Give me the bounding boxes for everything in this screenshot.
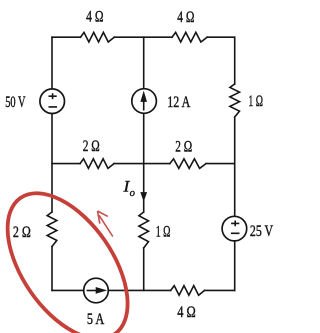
wire R7 to bottom-right corner — [205, 289, 235, 291]
resistor R7 4Ω (bottom) — [171, 286, 205, 296]
svg-text:2 Ω: 2 Ω — [13, 224, 31, 241]
wire R5 to bottom wire — [143, 248, 145, 290]
red highlight ellipse around R6 and I2 — [0, 172, 152, 333]
wire R3 to middle node — [114, 163, 170, 165]
current direction arrow Io on middle branch — [140, 192, 147, 202]
wire middle-row left node to R3 — [52, 163, 80, 165]
svg-text:4 Ω: 4 Ω — [177, 304, 196, 321]
svg-text:4 Ω: 4 Ω — [86, 8, 103, 25]
svg-text:2 Ω: 2 Ω — [175, 138, 192, 155]
voltage source V2 25V — [222, 216, 247, 241]
resistor R6 2Ω (left branch) — [47, 212, 57, 247]
resistor R2 4Ω (top right) — [172, 32, 207, 42]
svg-text:50 V: 50 V — [5, 94, 26, 111]
resistor R1 4Ω (top left) — [81, 32, 115, 42]
voltage source V1 50V — [40, 89, 65, 114]
current source I2 5A — [84, 278, 109, 303]
svg-text:1 Ω: 1 Ω — [248, 93, 263, 110]
wire R2 to top-right corner — [207, 36, 235, 38]
svg-text:25 V: 25 V — [250, 223, 274, 240]
current source I1 12A — [132, 89, 157, 114]
wire bottom-left corner to R7 — [52, 289, 171, 291]
svg-text:1 Ω: 1 Ω — [156, 223, 171, 240]
svg-text:5 A: 5 A — [87, 311, 105, 328]
red annotation arrow pointing at highlight — [98, 211, 113, 237]
svg-text:2 Ω: 2 Ω — [83, 138, 100, 155]
resistor R4 2Ω (middle right) — [170, 159, 206, 169]
resistor R3 2Ω (middle left) — [80, 159, 114, 169]
wire left branch top (through 50V source) — [51, 37, 53, 212]
wire middle branch top (through 12A source) — [143, 37, 145, 212]
wire R1 to top-middle node — [114, 36, 172, 38]
svg-text:12 A: 12 A — [167, 94, 191, 111]
svg-text:o: o — [130, 188, 135, 199]
wire top-left node to R1 — [52, 36, 81, 38]
wire right branch top to R8 — [234, 37, 236, 84]
resistor R5 1Ω (middle branch) — [139, 212, 149, 248]
wire R8 down through 25V source to bottom-right corner — [234, 117, 236, 290]
wire R6 to bottom-left corner — [51, 247, 53, 291]
resistor R8 1Ω (right branch) — [230, 84, 240, 117]
svg-text:4 Ω: 4 Ω — [177, 9, 194, 26]
wire R4 to middle-row right node — [206, 163, 235, 165]
